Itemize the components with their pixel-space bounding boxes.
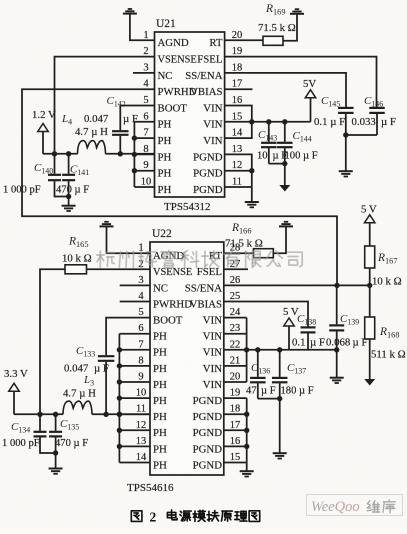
resistor R166 71.5k [254, 249, 274, 258]
R168 label [379, 326, 399, 340]
wire U22 VIN bus pins 24-20 [224, 318, 250, 382]
C139 label [340, 313, 359, 327]
figure caption: Fig.2 power module schematic [131, 510, 259, 525]
C146 value 0.033uF [352, 116, 396, 128]
resistor R169 71.5k [263, 36, 283, 45]
wire U21 VSENSE pin 2 to 1.2V output node [55, 57, 155, 154]
C133 label [76, 345, 95, 359]
U21 designator label [156, 18, 176, 30]
IC U22 TPS54616 body [150, 242, 224, 475]
wire U21 PGND bus pins 13-11 [225, 154, 255, 201]
capacitor C135 470uF [49, 414, 62, 455]
C142 value 0.047 uF [84, 113, 138, 125]
C144 label [293, 130, 312, 144]
C136 label [251, 362, 270, 376]
wire R167 to junction [369, 268, 371, 285]
C142 label [107, 95, 126, 109]
wire C143/C144 to arrow ground [269, 161, 288, 185]
capacitor C145 0.1uF [338, 108, 354, 135]
ground under U22 PGND bus [240, 471, 254, 476]
R165 label [68, 236, 88, 250]
wire U22 VSENSE pin 2 to R165 [87, 268, 151, 270]
inductor L3 4.7uH [63, 401, 92, 414]
C146 label [364, 95, 383, 109]
inductor L4 4.7uH [78, 141, 106, 154]
ground under C140/C141 [62, 197, 76, 212]
wire 1.2V output / switch node line [43, 151, 155, 156]
resistor R168 511k [365, 317, 375, 339]
power flag 5V (divider) [361, 204, 377, 247]
C145 label [321, 95, 340, 109]
C133 value 0.047uF [64, 363, 109, 375]
watermark logo WeeQoo [307, 495, 403, 516]
capacitor C140 1000pF [48, 154, 69, 197]
resistor R165 10k [65, 265, 87, 274]
power flag 3.3V [4, 368, 28, 414]
wire C139 to ground [336, 350, 338, 377]
wire 3.3V output / switch node line [14, 412, 150, 417]
wire U22 PGND bus pins 19-15 [224, 398, 250, 471]
C140 label [34, 162, 53, 176]
capacitor C142 0.047uF bootstrap [112, 131, 129, 135]
L3 designator label [83, 374, 94, 388]
C137 value 180uF [281, 386, 314, 397]
wire R166 to ground [273, 227, 286, 254]
R169 value 71.5 kOhm [258, 22, 296, 34]
R166 value 71.5 kOhm [225, 238, 263, 250]
wire U22 RT pin 28 to R166 [224, 252, 254, 254]
ground under U21 PGND bus [245, 202, 259, 207]
wire U22 BOOT pin 5 to C133 [106, 318, 150, 356]
ground at U21 AGND pin 1 [123, 9, 155, 40]
capacitor C143 10uF [261, 122, 277, 164]
capacitor C136 47uF [250, 350, 265, 399]
wire U22 NC pin 3 stub [120, 284, 150, 286]
C141 value 470uF [56, 185, 89, 196]
R167 label [377, 252, 397, 266]
wire U22 SS/ENA pin 26 to divider [224, 283, 373, 288]
R167 value 10 kOhm [372, 276, 402, 288]
C138 value 0.1uF [292, 337, 325, 349]
C137 label [287, 362, 306, 376]
wire U22 PH bus pins 6-14 [117, 334, 150, 463]
U21 part number TPS54312 [164, 201, 210, 213]
C140 value 1000pF [3, 185, 41, 196]
capacitor C133 0.047uF bootstrap [98, 356, 115, 361]
watermark text (grey) [97, 250, 302, 267]
ground under C145 [339, 171, 353, 176]
U21 left pin names [158, 37, 197, 196]
wire U21 FSEL pin 19 to C146 [225, 57, 377, 108]
IC U21 TPS54312 body [155, 32, 225, 197]
capacitor C139 0.068uF [329, 285, 344, 349]
arrow ground under C144 [279, 185, 290, 192]
C135 value 470uF [55, 438, 88, 449]
capacitor C146 0.033uF [369, 108, 385, 135]
ground at R166 [279, 222, 293, 227]
U21 left pin numbers 1-10 [141, 30, 152, 188]
C136 value 47uF [246, 386, 276, 397]
wire U21 PH bus pins 6-10 [132, 122, 155, 187]
wire R169 to ground [283, 14, 297, 41]
capacitor C137 180uF [272, 350, 288, 402]
ground at R169 [290, 9, 304, 14]
wire R165 to output node [37, 269, 65, 417]
power flag 5V (top) [303, 78, 316, 122]
R168 value 511 kOhm [371, 349, 406, 361]
ground under C136/C137 [273, 453, 287, 458]
U22 part number TPS54616 [127, 482, 174, 494]
C144 value 100uF [285, 151, 318, 162]
C145 value 0.1uF [314, 116, 345, 128]
wire U21 PWRHD pin 4 down-and-across rail [22, 89, 337, 286]
capacitor C144 100uF [277, 122, 293, 164]
C143 value 10uF [257, 151, 287, 162]
R169 label [265, 3, 285, 17]
wire U21 NC pin 3 stub [133, 72, 155, 74]
wire C145/C146 join to ground [343, 132, 377, 170]
capacitor C134 1000pF [34, 414, 56, 453]
L4 designator label [61, 113, 72, 127]
wire C133 bottom to PH node [103, 362, 108, 417]
C143 label [258, 129, 277, 143]
wire U22 FSEL pin 27 stub [224, 268, 248, 270]
resistor R167 10k [365, 246, 375, 268]
L3 value 4.7uH [63, 388, 96, 400]
wire U21 BOOT pin 5 to C142 [120, 106, 154, 131]
C141 label [70, 164, 89, 178]
capacitor C138 0.1uF [301, 327, 316, 349]
R165 value 10 kOhm [62, 253, 92, 265]
U22 left pin numbers 1-14 [136, 243, 147, 463]
wire U22 PWRHD pin 4 stub [120, 301, 150, 303]
ground at U22 AGND pin 1 [100, 222, 151, 253]
C139 value 0.068uF [326, 337, 367, 349]
U22 right pin names [185, 250, 223, 471]
wire U21 VBIAS pin 17 stub [225, 88, 253, 90]
C135 label [60, 418, 79, 432]
R166 label [231, 222, 251, 236]
ground under C134/C135 [49, 453, 63, 474]
U22 designator label [152, 228, 172, 240]
ground under C139 [330, 378, 344, 383]
wire R168 to arrow ground [369, 339, 371, 379]
wire U21 VIN bus pins 16-14 [225, 106, 255, 139]
C138 label [297, 313, 316, 327]
power flag 5V (bottom left) [283, 306, 299, 350]
power flag 1.2V [32, 109, 56, 154]
C134 label [11, 421, 30, 435]
U22 left pin names [153, 250, 192, 471]
U21 right pin numbers 20-11 [232, 30, 243, 188]
arrow ground under R168 [364, 379, 375, 386]
capacitor C141 470uF [62, 154, 75, 199]
wire U21 RT pin 20 to R169 [225, 39, 263, 41]
U22 right pin numbers 28-15 [230, 243, 241, 463]
wire U22 VBIAS pin 25 to C138 [224, 302, 308, 327]
wire 5V input node line (bottom) [247, 347, 340, 352]
wire C136/C137 join to ground [258, 399, 280, 453]
U21 right pin names [185, 37, 223, 196]
wire C142 bottom to PH node [118, 136, 123, 157]
wire 5V input node line (top) [252, 119, 311, 124]
C134 value 1000pF [2, 438, 40, 449]
wire junction to R168 [369, 285, 371, 317]
wire U21 SS/ENA pin 18 to C145 [225, 73, 346, 107]
L4 value 4.7 uH [75, 126, 108, 138]
